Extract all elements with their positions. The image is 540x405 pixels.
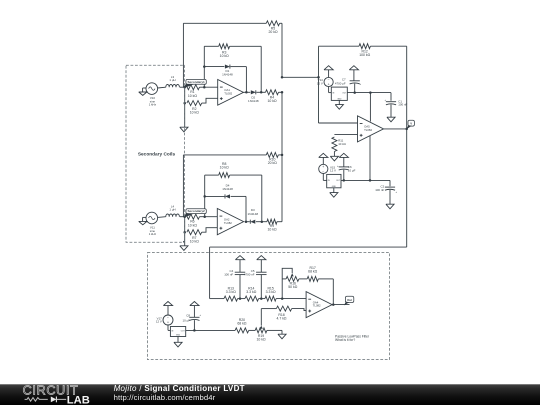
node D4 right tap bbox=[245, 220, 248, 223]
svg-text:Secondary Coils: Secondary Coils bbox=[138, 151, 176, 157]
svg-text:68 kΩ: 68 kΩ bbox=[308, 270, 317, 274]
resistor R15 bbox=[265, 286, 276, 301]
wire R8 horizontal left bbox=[205, 174, 219, 176]
capacitor C2 bbox=[375, 185, 397, 194]
wire R1 to opamp minus bbox=[200, 86, 218, 88]
wire C1 to ground bbox=[390, 105, 392, 118]
svg-text:−: − bbox=[167, 316, 169, 320]
op-amp OA4 bbox=[306, 292, 332, 318]
node R6 right bbox=[203, 215, 206, 218]
wire to ground sec1 bbox=[184, 103, 186, 127]
svg-text:4700 μF: 4700 μF bbox=[335, 82, 346, 86]
vcc arrow above C8 bbox=[190, 302, 199, 318]
wire rail1 to C1 bbox=[390, 93, 392, 101]
node R10 tap bbox=[281, 154, 284, 157]
wire D2 to R4 bbox=[256, 91, 265, 93]
ground below U2 bbox=[330, 188, 338, 197]
wire OA5 plus bbox=[334, 134, 357, 136]
wire R16-R17 bbox=[299, 278, 307, 280]
wire R14-R15 bbox=[259, 298, 265, 300]
svg-text:68 kΩ: 68 kΩ bbox=[237, 322, 246, 326]
wire V14 to IN bbox=[329, 87, 332, 93]
wire R3 horizontal left bbox=[204, 45, 218, 47]
node OA5 out bbox=[405, 128, 408, 131]
resistor R6 bbox=[185, 214, 200, 227]
wire D1 right bbox=[231, 67, 247, 93]
wire D1 left bbox=[204, 66, 224, 68]
svg-text:1N4148: 1N4148 bbox=[248, 99, 259, 103]
dashed box Secondary Coils bbox=[126, 65, 185, 242]
svg-text:http://circuitlab.com/cembd4r: http://circuitlab.com/cembd4r bbox=[114, 393, 216, 402]
net flag Out bbox=[344, 296, 354, 305]
diode D1 bbox=[222, 65, 233, 77]
wire V17 to IN bbox=[168, 325, 170, 330]
svg-text:100 nF: 100 nF bbox=[375, 188, 384, 192]
wire summing to OA5 bbox=[282, 76, 319, 78]
wire R17 right bbox=[318, 279, 333, 305]
svg-text:12 V: 12 V bbox=[330, 169, 336, 173]
svg-text:1N4148: 1N4148 bbox=[248, 212, 259, 216]
svg-text:+: + bbox=[322, 165, 324, 169]
resistor R13 bbox=[224, 286, 238, 301]
ground below R11 bbox=[330, 156, 338, 161]
ground sec2 bbox=[180, 246, 188, 251]
svg-text:1 μH: 1 μH bbox=[169, 78, 175, 82]
node C7 rail bbox=[353, 91, 356, 94]
svg-text:1 kHz: 1 kHz bbox=[149, 103, 157, 107]
svg-text:100 nF: 100 nF bbox=[224, 273, 233, 277]
wire feedback right vertical bbox=[406, 46, 408, 247]
wire R18 left bbox=[261, 309, 276, 326]
node C4 bbox=[239, 297, 242, 300]
svg-text:3.3 kΩ: 3.3 kΩ bbox=[226, 290, 236, 294]
node R16 tap bbox=[281, 297, 284, 300]
wire R2 to plus bbox=[202, 98, 218, 103]
svg-text:Secondary2: Secondary2 bbox=[187, 209, 205, 213]
ground at V11 bbox=[139, 217, 147, 224]
svg-text:+: + bbox=[328, 82, 330, 86]
vcc arrow above C7 bbox=[349, 66, 358, 81]
svg-text:10 kΩ: 10 kΩ bbox=[188, 223, 197, 227]
rail2 wire bbox=[341, 179, 390, 181]
node secondary2 bbox=[183, 215, 186, 218]
wire R13-R14 bbox=[238, 298, 245, 300]
wire L3 to node bbox=[180, 86, 185, 88]
svg-text:1N4148: 1N4148 bbox=[222, 72, 233, 76]
wire R15 to minus bbox=[276, 298, 306, 300]
node C6 rail bbox=[343, 179, 346, 182]
svg-text:TL082: TL082 bbox=[224, 221, 232, 225]
net flag Secondary1 bbox=[184, 79, 206, 88]
wire R12 left vertical bbox=[318, 46, 320, 123]
wire node down to R2 bbox=[184, 87, 186, 103]
wire OA4 out bbox=[332, 304, 349, 306]
wire R16 loop bbox=[282, 268, 292, 298]
wire OA5 minus bbox=[319, 122, 358, 124]
logo CIRCUIT bbox=[23, 383, 79, 397]
capacitor C5 bbox=[244, 269, 267, 276]
voltage source V14 bbox=[317, 77, 333, 86]
svg-text:1 kHz: 1 kHz bbox=[149, 232, 157, 236]
svg-text:1N4148: 1N4148 bbox=[222, 187, 233, 191]
node R4 summing bbox=[281, 91, 284, 94]
ground at V10 bbox=[139, 88, 147, 95]
svg-text:1 μH: 1 μH bbox=[169, 208, 175, 212]
svg-text:GND: GND bbox=[176, 335, 181, 337]
node D4 tap bbox=[203, 195, 206, 198]
capacitor C6 bbox=[337, 165, 356, 173]
wire filter feed left vertical bbox=[209, 247, 211, 299]
ground below C2 bbox=[386, 204, 394, 209]
op-amp OA2 bbox=[217, 209, 243, 235]
logo diode bbox=[51, 397, 66, 403]
inductor L4 bbox=[166, 204, 180, 216]
vcc arrow above V17 bbox=[163, 302, 172, 316]
wire R8 horizontal right bbox=[230, 175, 262, 222]
wire R12 right bbox=[370, 45, 406, 47]
svg-text:50 kΩ: 50 kΩ bbox=[288, 285, 297, 289]
resistor R5 bbox=[266, 21, 279, 34]
resistor R20 bbox=[235, 318, 249, 333]
resistor R8 bbox=[219, 162, 230, 178]
net flag out OA5 bbox=[406, 120, 415, 129]
svg-text:TL082: TL082 bbox=[313, 304, 321, 308]
wire R7 to plus bbox=[202, 228, 218, 233]
svg-text:12 V: 12 V bbox=[317, 81, 323, 85]
wire R5 right vertical bbox=[280, 23, 282, 77]
footer url bbox=[114, 393, 216, 402]
resistor R2 bbox=[187, 101, 202, 115]
svg-text:TL082: TL082 bbox=[364, 128, 372, 132]
wire R3 left vertical bbox=[203, 46, 205, 87]
svg-text:+: + bbox=[167, 320, 169, 324]
capacitor C8 bbox=[183, 313, 202, 322]
svg-text:10 kΩ: 10 kΩ bbox=[267, 227, 276, 231]
wire R19 right bbox=[267, 330, 282, 334]
ground below C1 bbox=[387, 117, 395, 122]
op-amp OA5 bbox=[358, 116, 384, 142]
svg-text:10 kΩ: 10 kΩ bbox=[190, 239, 199, 243]
wire to ground sec2 bbox=[184, 232, 186, 246]
svg-text:Mojito / Signal Conditioner LV: Mojito / Signal Conditioner LVDT bbox=[114, 384, 245, 393]
label passive lowpass bbox=[335, 334, 370, 342]
voltage source V15 bbox=[319, 164, 336, 173]
svg-text:GND: GND bbox=[332, 186, 337, 188]
wire OA5 vminus pin bbox=[369, 136, 371, 180]
wire node down to R7 bbox=[184, 217, 186, 233]
resistor R10 bbox=[266, 152, 278, 165]
wire R6 to opamp minus bbox=[200, 216, 218, 218]
node C5 bbox=[260, 297, 263, 300]
rail1 wire bbox=[347, 92, 391, 94]
logo resistor zigzag bbox=[25, 398, 48, 402]
resistor R4 bbox=[266, 90, 279, 103]
wire rail2 to C2 bbox=[389, 180, 391, 186]
svg-text:TL082: TL082 bbox=[224, 91, 232, 95]
wire R5 top feedback left vertical bbox=[182, 23, 184, 87]
svg-text:100 nF: 100 nF bbox=[398, 103, 407, 107]
wire C2 to ground bbox=[389, 190, 391, 204]
node secondary1 bbox=[183, 86, 186, 89]
wire L4 to node bbox=[180, 216, 185, 218]
wire R10 horizontal bbox=[183, 154, 266, 156]
node R2 left bbox=[183, 102, 186, 105]
wire R18 right bbox=[292, 309, 306, 311]
wire R8 left vertical bbox=[204, 175, 206, 217]
ground sec1 bbox=[180, 127, 188, 132]
svg-text:4.7 kΩ: 4.7 kΩ bbox=[276, 317, 286, 321]
wire R4 right bbox=[279, 91, 283, 93]
inductor L3 bbox=[166, 75, 180, 87]
node R3 tap bbox=[260, 91, 263, 94]
wire V10 to L3 bbox=[158, 86, 166, 89]
wire C5 down bbox=[260, 275, 262, 299]
wire R20-R19 bbox=[249, 329, 256, 331]
svg-text:10 μF: 10 μF bbox=[183, 318, 191, 322]
wire C4 down bbox=[239, 275, 241, 299]
node vplus rail bbox=[369, 91, 372, 94]
dashed box filter bbox=[148, 253, 390, 360]
svg-text:What is it for?: What is it for? bbox=[335, 338, 355, 342]
svg-text:Secondary1: Secondary1 bbox=[187, 80, 205, 84]
svg-text:−: − bbox=[322, 169, 324, 173]
resistor R3 bbox=[219, 44, 230, 58]
regulator U2 box bbox=[327, 174, 341, 187]
svg-text:3.3 kΩ: 3.3 kΩ bbox=[266, 290, 276, 294]
wire R10 right bbox=[278, 154, 282, 156]
resistor R9 bbox=[267, 219, 277, 231]
resistor R7 bbox=[187, 230, 202, 244]
net flag Secondary2 bbox=[184, 209, 206, 218]
node OA4 feedback bbox=[332, 303, 335, 306]
wire V15 to IN bbox=[323, 174, 326, 181]
wire filter feed bottom bbox=[210, 246, 407, 248]
svg-text:C8: C8 bbox=[186, 313, 190, 317]
label Secondary Coils bbox=[138, 151, 176, 157]
svg-text:4700 nF: 4700 nF bbox=[244, 273, 255, 277]
wire V11 to L4 bbox=[158, 216, 166, 219]
voltage source V10 bbox=[146, 83, 158, 107]
wire C6 down bbox=[343, 170, 345, 181]
node summing top bbox=[281, 76, 284, 79]
svg-text:20 kΩ: 20 kΩ bbox=[268, 161, 277, 165]
resistor R16 pot bbox=[286, 273, 299, 289]
svg-text:LAB: LAB bbox=[67, 394, 90, 405]
regulator U1 box bbox=[331, 87, 347, 100]
capacitor C7 bbox=[335, 77, 362, 86]
wire OA2 output bbox=[245, 221, 250, 223]
svg-text:10 kΩ: 10 kΩ bbox=[220, 54, 229, 58]
svg-text:10 kΩ: 10 kΩ bbox=[256, 338, 265, 342]
resistor R19 pot bbox=[255, 328, 267, 342]
capacitor C1 bbox=[384, 99, 407, 107]
svg-text:10 kΩ: 10 kΩ bbox=[188, 94, 197, 98]
wire R16 left bbox=[282, 278, 286, 280]
svg-text:10 kΩ: 10 kΩ bbox=[220, 166, 229, 170]
svg-text:Out: Out bbox=[347, 298, 352, 302]
node OA1 out D1 tap bbox=[245, 91, 248, 94]
node C8 tap bbox=[193, 329, 196, 332]
svg-text:10 kΩ: 10 kΩ bbox=[338, 142, 346, 146]
ground below U1 bbox=[335, 100, 343, 109]
footer title bbox=[114, 384, 245, 393]
wiper arrow R19 bbox=[260, 326, 263, 329]
wire R3 horizontal right bbox=[230, 46, 262, 92]
wire OA5 output bbox=[384, 128, 407, 130]
ground below U3 bbox=[174, 337, 182, 347]
wire OA5 vplus pin bbox=[369, 93, 371, 122]
footer bar bbox=[0, 384, 540, 405]
svg-text:10 kΩ: 10 kΩ bbox=[190, 110, 199, 114]
diode D4 bbox=[222, 184, 233, 199]
wire R9 right bbox=[277, 92, 282, 221]
node R8 tap bbox=[261, 220, 264, 223]
node box crossing bbox=[183, 241, 185, 243]
svg-text:−: − bbox=[328, 78, 330, 82]
logo LAB bbox=[67, 394, 90, 405]
resistor R14 bbox=[245, 286, 259, 301]
wire R10 left vertical bbox=[182, 155, 184, 217]
node D1 tap bbox=[203, 65, 206, 68]
svg-text:3.3 kΩ: 3.3 kΩ bbox=[246, 290, 256, 294]
voltage source V11 bbox=[146, 212, 158, 236]
diode D3 bbox=[248, 208, 259, 224]
svg-text:V: V bbox=[410, 122, 412, 126]
diode D2 bbox=[248, 90, 259, 103]
node at R12 vertical bbox=[317, 76, 320, 79]
resistor R12 bbox=[359, 44, 371, 57]
wire D4 right bbox=[231, 196, 246, 221]
capacitor C4 bbox=[224, 269, 245, 276]
vcc arrow above V14 bbox=[324, 66, 333, 78]
ground right of R19 bbox=[278, 334, 286, 339]
resistor R11 bbox=[332, 137, 347, 152]
voltage source V17 bbox=[156, 315, 173, 325]
wire ladder in bbox=[210, 298, 224, 300]
svg-text:10 μF: 10 μF bbox=[348, 168, 356, 172]
resistor R17 bbox=[307, 266, 318, 281]
wire R11 to ground bbox=[333, 152, 335, 157]
svg-text:GND: GND bbox=[337, 98, 342, 100]
svg-text:100 kΩ: 100 kΩ bbox=[359, 53, 370, 57]
svg-text:20 kΩ: 20 kΩ bbox=[268, 30, 277, 34]
vcc arrow above C5 bbox=[257, 256, 266, 273]
node vminus rail bbox=[369, 179, 372, 182]
wire D4 left bbox=[205, 195, 225, 197]
regulator U3 box bbox=[170, 327, 185, 337]
wire OA1 output bbox=[243, 91, 250, 93]
wire C7 down bbox=[354, 84, 356, 93]
vcc arrow above C4 bbox=[235, 256, 244, 273]
wire C8 down bbox=[193, 320, 195, 330]
svg-text:10 kΩ: 10 kΩ bbox=[267, 99, 276, 103]
resistor R18 bbox=[276, 306, 291, 321]
svg-text:12 V: 12 V bbox=[156, 320, 162, 324]
node R7 left bbox=[183, 231, 186, 234]
wire D3 to R9 bbox=[256, 221, 267, 223]
wire U3 out bbox=[186, 329, 235, 331]
resistor R1 bbox=[185, 85, 200, 98]
wire R5 top horizontal bbox=[183, 22, 266, 24]
node R1 right bbox=[203, 86, 206, 89]
vcc arrow above C6 bbox=[339, 153, 348, 167]
wire R12 top bbox=[319, 45, 360, 47]
op-amp OA1 bbox=[218, 80, 244, 106]
vcc arrow above V15 bbox=[319, 153, 328, 164]
